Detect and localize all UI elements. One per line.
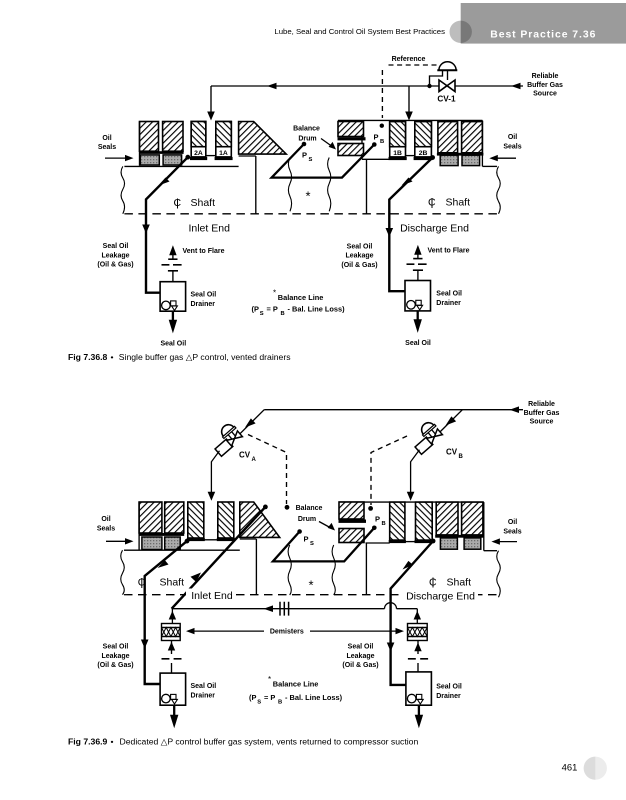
svg-text:Oil: Oil xyxy=(102,135,111,142)
svg-text:Seal Oil: Seal Oil xyxy=(160,340,186,347)
svg-text:Seal Oil: Seal Oil xyxy=(347,243,373,250)
svg-text:Oil: Oil xyxy=(101,516,110,523)
svg-text:S: S xyxy=(260,311,264,317)
svg-text:1B: 1B xyxy=(393,150,402,157)
svg-text:Vent to Flare: Vent to Flare xyxy=(428,248,470,255)
svg-text:Demisters: Demisters xyxy=(270,629,304,636)
svg-text:Fig 7.36.9: Fig 7.36.9 xyxy=(68,736,108,746)
svg-text:B: B xyxy=(459,454,464,460)
svg-text:Seals: Seals xyxy=(98,144,116,151)
svg-text:Shaft: Shaft xyxy=(447,577,472,589)
svg-text:Inlet End: Inlet End xyxy=(188,223,230,235)
svg-text:Reference: Reference xyxy=(392,56,426,63)
svg-text:Drainer: Drainer xyxy=(191,692,216,699)
svg-text:Drainer: Drainer xyxy=(436,300,461,307)
svg-text:*: * xyxy=(273,289,276,298)
svg-text:•: • xyxy=(111,736,114,746)
svg-text:Source: Source xyxy=(533,91,557,98)
svg-text:(P: (P xyxy=(249,693,256,702)
svg-text:(Oil & Gas): (Oil & Gas) xyxy=(341,262,377,269)
svg-text:Buffer Gas: Buffer Gas xyxy=(524,410,560,417)
svg-text:*: * xyxy=(268,675,271,684)
svg-text:461: 461 xyxy=(562,762,578,773)
svg-text:CV: CV xyxy=(239,451,251,460)
svg-text:Seal Oil: Seal Oil xyxy=(191,292,217,299)
svg-text:(Oil & Gas): (Oil & Gas) xyxy=(97,262,133,269)
svg-text:= P: = P xyxy=(267,305,278,314)
svg-text:Balance: Balance xyxy=(296,505,323,512)
svg-text:(P: (P xyxy=(252,305,259,314)
svg-text:Single buffer gas △P control,: Single buffer gas △P control, vented dra… xyxy=(119,352,291,362)
svg-text:CV-1: CV-1 xyxy=(437,95,456,104)
svg-text:Seal Oil: Seal Oil xyxy=(436,291,462,298)
svg-text:Shaft: Shaft xyxy=(191,197,216,209)
svg-text:Leakage: Leakage xyxy=(101,252,129,259)
svg-text:•: • xyxy=(111,352,114,362)
svg-text:A: A xyxy=(252,457,257,463)
svg-text:Oil: Oil xyxy=(508,519,517,526)
svg-text:Oil: Oil xyxy=(508,134,517,141)
svg-text:Drum: Drum xyxy=(298,135,316,142)
svg-text:Seal Oil: Seal Oil xyxy=(405,340,431,347)
svg-text:Leakage: Leakage xyxy=(101,653,129,660)
svg-text:Drainer: Drainer xyxy=(191,301,216,308)
svg-text:Buffer Gas: Buffer Gas xyxy=(527,82,563,89)
svg-text:Drum: Drum xyxy=(298,516,316,523)
svg-text:S: S xyxy=(257,699,261,705)
svg-text:Shaft: Shaft xyxy=(160,577,185,589)
svg-text:Shaft: Shaft xyxy=(446,197,471,209)
svg-text:Balance: Balance xyxy=(293,125,320,132)
svg-text:Seal Oil: Seal Oil xyxy=(103,243,129,250)
svg-text:Seal Oil: Seal Oil xyxy=(191,683,217,690)
svg-text:2A: 2A xyxy=(194,150,203,157)
svg-text:(Oil & Gas): (Oil & Gas) xyxy=(97,662,133,669)
svg-text:Drainer: Drainer xyxy=(436,693,461,700)
svg-text:Leakage: Leakage xyxy=(346,653,374,660)
svg-text:B: B xyxy=(281,311,285,317)
svg-text:- Bal. Line Loss): - Bal. Line Loss) xyxy=(288,305,346,314)
svg-text:Lube, Seal and Control Oil Sys: Lube, Seal and Control Oil System Best P… xyxy=(274,27,445,36)
svg-text:Seal Oil: Seal Oil xyxy=(436,684,462,691)
svg-text:B: B xyxy=(278,699,282,705)
svg-text:P: P xyxy=(302,151,307,160)
svg-text:P: P xyxy=(374,133,379,142)
svg-text:Discharge End: Discharge End xyxy=(406,590,475,602)
svg-text:B: B xyxy=(380,139,384,145)
svg-text:S: S xyxy=(309,157,313,163)
svg-text:Seals: Seals xyxy=(503,528,521,535)
svg-text:(Oil & Gas): (Oil & Gas) xyxy=(342,662,378,669)
svg-text:Seals: Seals xyxy=(97,525,115,532)
svg-text:Vent to Flare: Vent to Flare xyxy=(183,248,225,255)
svg-text:*: * xyxy=(305,189,310,204)
svg-text:Reliable: Reliable xyxy=(528,401,555,408)
svg-text:Leakage: Leakage xyxy=(345,253,373,260)
svg-text:Seal Oil: Seal Oil xyxy=(103,644,129,651)
svg-text:Source: Source xyxy=(530,419,554,426)
svg-text:B: B xyxy=(382,521,386,527)
svg-text:P: P xyxy=(375,515,380,524)
svg-text:- Bal. Line Loss): - Bal. Line Loss) xyxy=(285,693,343,702)
svg-text:Best Practice 7.36: Best Practice 7.36 xyxy=(490,30,596,41)
svg-text:2B: 2B xyxy=(419,150,428,157)
svg-text:1A: 1A xyxy=(219,150,228,157)
svg-text:Seals: Seals xyxy=(503,143,521,150)
svg-text:= P: = P xyxy=(264,693,275,702)
svg-text:P: P xyxy=(304,535,309,544)
svg-text:CV: CV xyxy=(446,448,458,457)
svg-text:Inlet End: Inlet End xyxy=(191,590,233,602)
svg-text:S: S xyxy=(310,541,314,547)
svg-text:Reliable: Reliable xyxy=(532,73,559,80)
svg-text:Fig 7.36.8: Fig 7.36.8 xyxy=(68,352,108,362)
svg-text:Balance Line: Balance Line xyxy=(273,680,319,689)
svg-text:*: * xyxy=(308,578,313,593)
svg-text:Dedicated △P control buffer ga: Dedicated △P control buffer gas system, … xyxy=(120,736,419,746)
svg-text:Balance Line: Balance Line xyxy=(278,293,324,302)
svg-text:Discharge End: Discharge End xyxy=(400,223,469,235)
svg-text:Seal Oil: Seal Oil xyxy=(348,644,374,651)
